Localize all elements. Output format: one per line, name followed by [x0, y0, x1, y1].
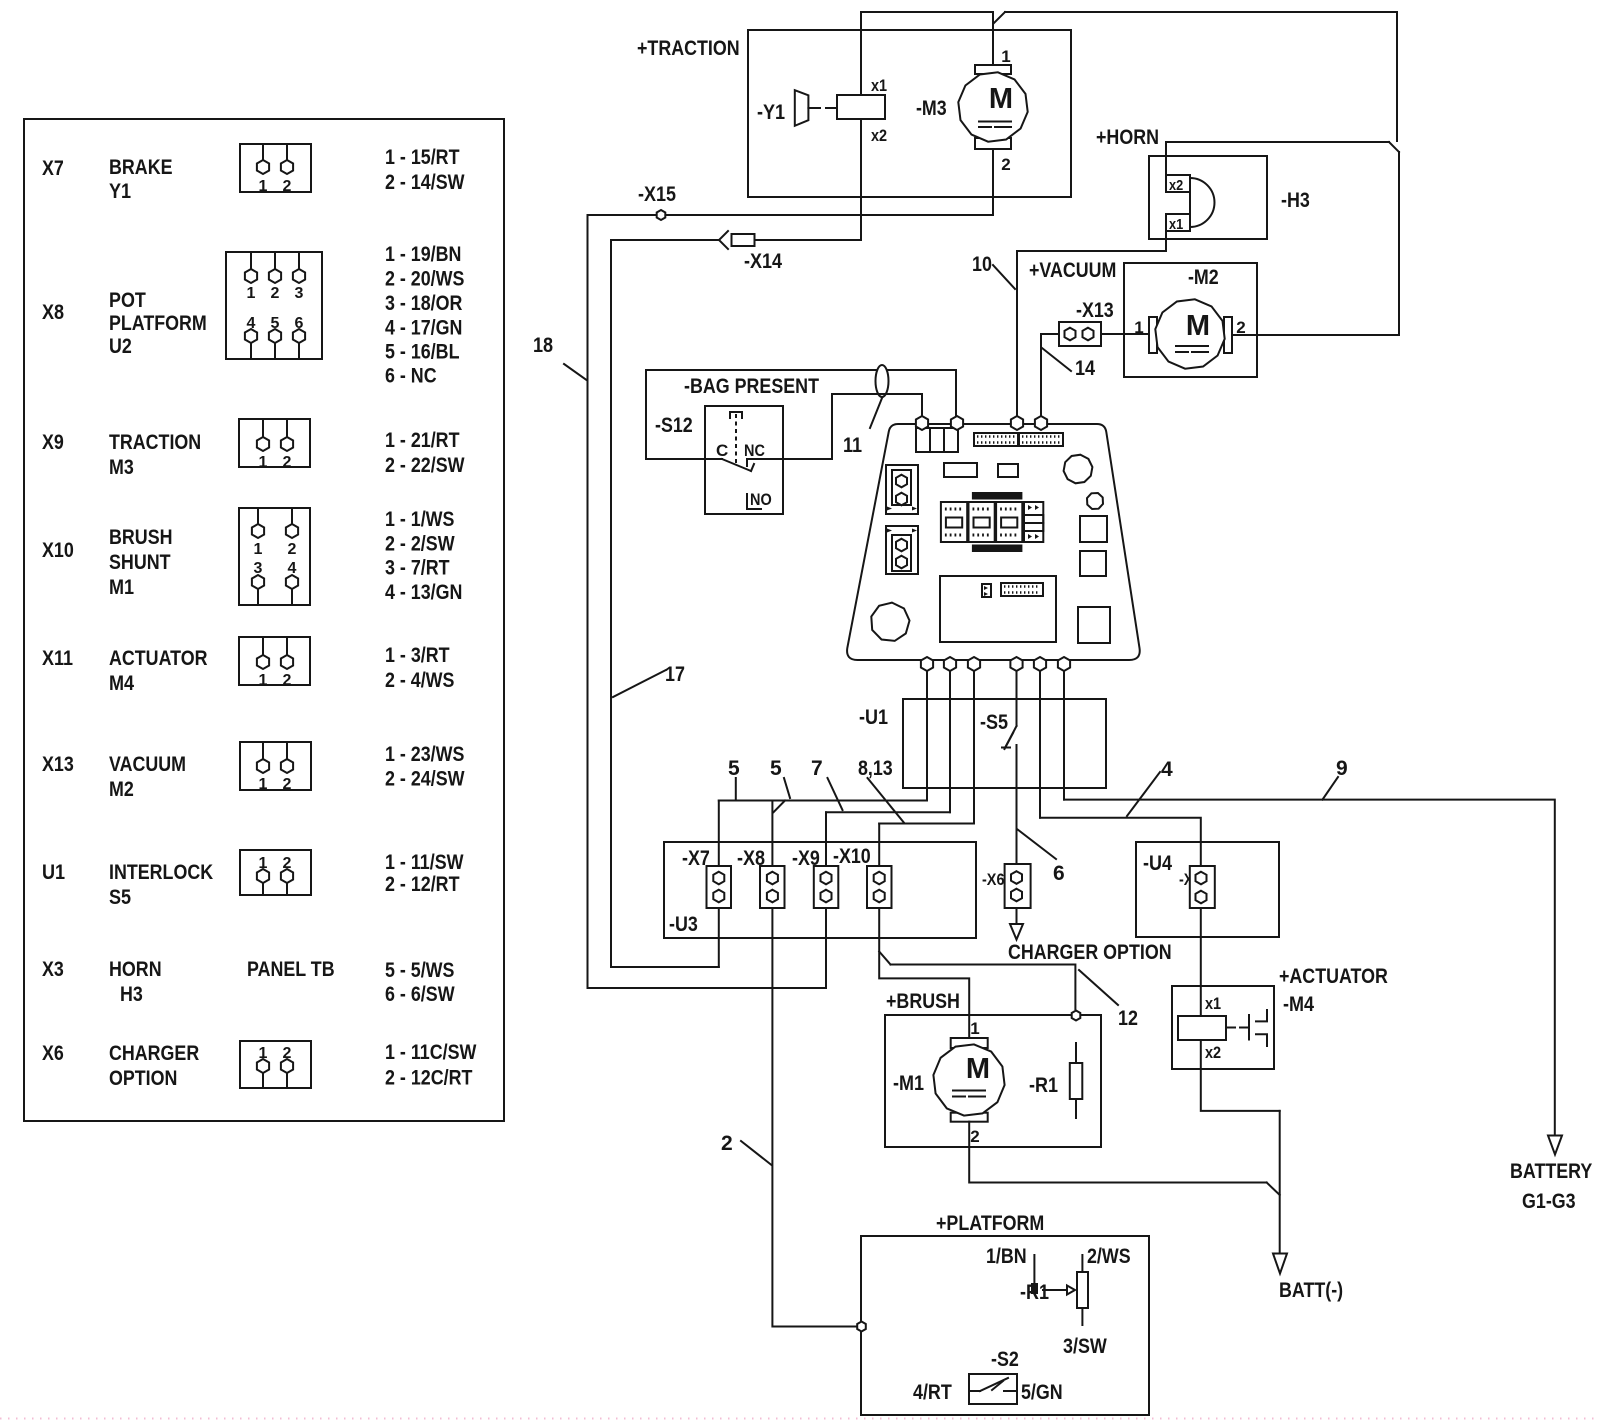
battery arrow: [1548, 1136, 1562, 1155]
svg-text:POT: POT: [109, 289, 146, 312]
label NO with bracket: [747, 490, 772, 509]
svg-text:5 - 16/BL: 5 - 16/BL: [385, 341, 460, 364]
svg-text:BRAKE: BRAKE: [109, 156, 173, 179]
svg-text:17: 17: [665, 663, 685, 686]
svg-text:2: 2: [283, 454, 292, 471]
wire M3 pin2 down to X15: [992, 149, 994, 215]
switch S2: [969, 1374, 1017, 1404]
label 8,13 with leader: [858, 757, 904, 823]
board square B: [1080, 551, 1106, 576]
svg-text:X11: X11: [42, 647, 73, 670]
svg-text:5: 5: [770, 757, 782, 780]
wire X10 vertical to brush: [879, 824, 969, 1039]
svg-text:+TRACTION: +TRACTION: [637, 37, 740, 60]
svg-text:3 - 7/RT: 3 - 7/RT: [385, 557, 450, 580]
board header strip B: [1019, 433, 1063, 446]
svg-text:2 - 12C/RT: 2 - 12C/RT: [385, 1067, 473, 1090]
wire below R1: [1075, 1099, 1077, 1118]
board connector block upper-left: [886, 465, 918, 514]
svg-text:1: 1: [254, 541, 263, 558]
batt-minus arrow: [1273, 1254, 1287, 1274]
svg-text:2 - 20/WS: 2 - 20/WS: [385, 268, 464, 291]
control board outline: [847, 424, 1140, 660]
connector X9: [814, 866, 839, 908]
svg-text:S5: S5: [109, 886, 131, 909]
board bottom pin 3: [968, 657, 980, 671]
legend row X6 CHARGER OPTION labels: [42, 1042, 199, 1090]
wire X14 with inline connector: [611, 231, 861, 249]
svg-text:5/GN: 5/GN: [1021, 1381, 1063, 1404]
board relay module 2: [969, 502, 995, 542]
board bottom module: [940, 576, 1056, 642]
svg-text:1: 1: [259, 672, 268, 689]
svg-text:-R1: -R1: [1020, 1281, 1049, 1304]
svg-text:2 - 12/RT: 2 - 12/RT: [385, 873, 460, 896]
horn H3 symbol: [1166, 175, 1214, 231]
board small rect B: [998, 464, 1018, 477]
svg-text:X9: X9: [42, 431, 64, 454]
svg-text:1 - 23/WS: 1 - 23/WS: [385, 743, 464, 766]
legend row U1 INTERLOCK S5 labels: [42, 861, 213, 909]
svg-text:X13: X13: [42, 753, 74, 776]
legend X7 pin list: [385, 146, 465, 194]
svg-text:2 - 4/WS: 2 - 4/WS: [385, 669, 454, 692]
node on brush box top: [1072, 1011, 1081, 1021]
svg-text:3: 3: [295, 285, 304, 302]
coil Y1: [837, 95, 885, 119]
wire net 17 X7 to X14: [611, 240, 719, 967]
legend connector X11 (2-pin): [239, 637, 310, 689]
board bottom pin 6: [1058, 657, 1070, 671]
svg-text:-X6: -X6: [982, 870, 1005, 889]
frame vacuum M2 box: [1124, 263, 1257, 377]
legend U1 pin list: [385, 851, 464, 896]
legend connector X13 (2-pin): [240, 742, 311, 793]
svg-text:TRACTION: TRACTION: [109, 431, 201, 454]
svg-text:OPTION: OPTION: [109, 1067, 177, 1090]
svg-text:2: 2: [970, 1127, 979, 1146]
connector X7: [707, 866, 732, 908]
wire jog at M3 pin1: [994, 12, 1005, 23]
svg-text:-X13: -X13: [1076, 299, 1114, 322]
label 14 with leader: [1042, 348, 1095, 380]
wire bag-present top: [646, 369, 956, 371]
legend X8 pin list: [385, 243, 464, 388]
label 12 with leader: [1079, 970, 1138, 1030]
label 7 with leader: [811, 757, 843, 810]
svg-text:BATT(-): BATT(-): [1279, 1279, 1343, 1302]
svg-text:1 - 15/RT: 1 - 15/RT: [385, 146, 460, 169]
svg-text:6: 6: [1053, 862, 1065, 885]
svg-text:x2: x2: [1205, 1043, 1221, 1062]
legend table frame: [24, 119, 504, 1121]
svg-text:PLATFORM: PLATFORM: [109, 312, 207, 335]
svg-text:-S12: -S12: [655, 414, 693, 437]
svg-text:+HORN: +HORN: [1096, 126, 1159, 149]
svg-text:x2: x2: [871, 126, 887, 145]
svg-text:6 - 6/SW: 6 - 6/SW: [385, 983, 455, 1006]
bottom page dotted marker: [0, 1418, 1600, 1420]
svg-text:-BAG PRESENT: -BAG PRESENT: [684, 375, 819, 398]
legend row X3 HORN H3 labels: [42, 958, 335, 1006]
svg-text:HORN: HORN: [109, 958, 162, 981]
svg-text:2/WS: 2/WS: [1087, 1245, 1131, 1268]
svg-text:4: 4: [1161, 758, 1173, 781]
svg-text:BATTERY: BATTERY: [1510, 1160, 1592, 1183]
svg-text:-U4: -U4: [1143, 852, 1172, 875]
frame +BRUSH box: [885, 1015, 1101, 1147]
frame U4 box: [1136, 842, 1279, 937]
wire M2 pin2 to horn bus: [1232, 334, 1399, 336]
legend connector X10 (4-pin): [239, 508, 310, 605]
svg-text:G1-G3: G1-G3: [1522, 1190, 1576, 1213]
svg-text:-X14: -X14: [744, 250, 782, 273]
svg-text:2: 2: [1001, 155, 1010, 174]
wire S5 to X6 charger: [1016, 745, 1018, 924]
legend X6 pin list: [385, 1041, 477, 1090]
svg-text:BRUSH: BRUSH: [109, 526, 173, 549]
svg-text:+PLATFORM: +PLATFORM: [936, 1212, 1044, 1235]
svg-text:7: 7: [811, 757, 823, 780]
svg-text:2: 2: [283, 776, 292, 793]
wire X0 through U4 to M4: [1200, 903, 1202, 1016]
board square C: [1078, 607, 1110, 643]
svg-text:-R1: -R1: [1029, 1074, 1058, 1097]
board relay module 4: [1024, 502, 1043, 542]
svg-text:-U1: -U1: [859, 706, 888, 729]
board header strip A: [974, 433, 1018, 446]
legend X10 pin list: [385, 508, 462, 604]
svg-text:C: C: [716, 441, 728, 460]
svg-text:-M1: -M1: [893, 1072, 924, 1095]
wire NC to board pin: [783, 394, 922, 459]
wire X9 vertical (net 18 branch): [588, 215, 827, 988]
svg-text:2: 2: [283, 178, 292, 195]
board top pin 3: [1011, 416, 1023, 430]
wire node to R1: [1075, 1043, 1077, 1063]
svg-text:2: 2: [283, 672, 292, 689]
svg-text:U1: U1: [42, 861, 65, 884]
wire X13 to board pin: [1041, 334, 1059, 417]
board bottom pin 2: [944, 657, 956, 671]
svg-text:1 - 21/RT: 1 - 21/RT: [385, 429, 460, 452]
svg-text:18: 18: [533, 334, 553, 357]
connector X13: [1059, 322, 1101, 346]
connector X6: [1005, 864, 1031, 908]
wire X15: [588, 214, 994, 216]
legend connector X7 (2-pin): [240, 144, 311, 195]
connector X10: [867, 866, 892, 908]
svg-text:11: 11: [843, 434, 862, 457]
label 4 with leader: [1127, 758, 1173, 816]
svg-text:4 - 17/GN: 4 - 17/GN: [385, 317, 462, 340]
svg-text:-M4: -M4: [1283, 993, 1314, 1016]
board top pin 4: [1035, 416, 1047, 430]
cable marker ellipse: [876, 365, 889, 397]
svg-text:1 - 1/WS: 1 - 1/WS: [385, 508, 454, 531]
svg-text:+BRUSH: +BRUSH: [886, 990, 960, 1013]
board square A: [1080, 516, 1107, 542]
svg-text:M: M: [1186, 310, 1210, 342]
wire M1 pin2 to batt-minus: [969, 1122, 1279, 1195]
svg-text:M: M: [966, 1053, 990, 1085]
label 10 with leader: [972, 253, 1015, 289]
svg-text:M3: M3: [109, 456, 134, 479]
svg-text:x1: x1: [1169, 216, 1183, 233]
legend connector X9 (2-pin): [239, 419, 310, 471]
svg-text:1: 1: [247, 285, 256, 302]
svg-text:-M3: -M3: [916, 97, 947, 120]
svg-text:-U3: -U3: [669, 913, 698, 936]
svg-text:1 - 11/SW: 1 - 11/SW: [385, 851, 464, 874]
svg-text:X3: X3: [42, 958, 64, 981]
node on platform box edge: [857, 1322, 866, 1332]
svg-text:Y1: Y1: [109, 180, 131, 203]
wire M4 x2 to batt-minus: [1201, 1040, 1280, 1111]
svg-text:1 - 19/BN: 1 - 19/BN: [385, 243, 461, 266]
svg-text:H3: H3: [120, 983, 143, 1006]
svg-text:+VACUUM: +VACUUM: [1029, 259, 1116, 282]
svg-text:-M2: -M2: [1188, 266, 1219, 289]
svg-text:M2: M2: [109, 778, 134, 801]
wire net 12 from X10 to R1 node: [879, 952, 1075, 1010]
svg-text:1/BN: 1/BN: [986, 1245, 1027, 1268]
frame actuator M4 box: [1172, 986, 1274, 1069]
label 6 with leader: [1017, 829, 1065, 885]
actuator contact symbol: [1226, 1010, 1267, 1046]
frame horn H3 box: [1149, 156, 1267, 239]
board top-left terminal block: [916, 428, 958, 452]
board hatched bar bottom: [973, 546, 1022, 552]
board octagon nut: [1087, 493, 1103, 509]
svg-text:2 - 22/SW: 2 - 22/SW: [385, 454, 465, 477]
svg-text:14: 14: [1075, 357, 1095, 380]
legend X9 pin list: [385, 429, 465, 477]
frame interlock U1 box: [903, 699, 1106, 788]
wire M3 pin1 up: [992, 12, 994, 65]
wire Y1 x1 up: [860, 12, 862, 95]
frame +PLATFORM box: [861, 1236, 1149, 1415]
switch S5 blade: [1002, 726, 1017, 749]
frame U3 box: [664, 842, 976, 938]
board relay module 3: [996, 502, 1022, 542]
svg-text:-X10: -X10: [833, 845, 871, 868]
svg-text:8,13: 8,13: [858, 757, 893, 780]
svg-text:x1: x1: [1205, 994, 1221, 1013]
svg-text:12: 12: [1118, 1007, 1138, 1030]
board top pin 2: [951, 416, 963, 430]
wire net X8/X9 horizontal: [826, 811, 950, 813]
switch S12 plunger and contacts: [705, 412, 783, 471]
wire net5 X7 horizontal: [719, 800, 927, 802]
resistor R1: [1070, 1063, 1083, 1099]
wire bag top to board pin: [955, 370, 957, 417]
coil M4: [1178, 1016, 1226, 1040]
label 17 with leader: [613, 663, 685, 697]
svg-text:NC: NC: [744, 441, 765, 460]
board nonagon nut: [871, 603, 909, 641]
svg-text:x2: x2: [1169, 177, 1183, 194]
wire X8 vertical (net 2): [772, 801, 856, 1327]
wire board pin to X10 net: [973, 671, 975, 824]
svg-text:2 - 14/SW: 2 - 14/SW: [385, 171, 465, 194]
svg-text:5: 5: [728, 757, 740, 780]
connector X8: [760, 866, 785, 908]
legend connector U1 (2-pin): [240, 850, 311, 895]
wire top bus left segment: [861, 11, 993, 13]
legend connector X8 (6-pin): [226, 252, 322, 359]
switch S12 box: [705, 406, 783, 514]
wire board pin to X7 net: [926, 671, 928, 801]
wire board pin to S5: [1016, 671, 1018, 726]
svg-text:-H3: -H3: [1281, 189, 1310, 212]
board top pin 1: [916, 416, 928, 430]
wire top bus right segment: [1005, 12, 1397, 141]
legend row X7 BRAKE Y1 labels: [42, 156, 173, 203]
svg-text:2: 2: [288, 541, 297, 558]
wire board pin to X8 net: [949, 671, 951, 812]
wire X13 to M2 pin1: [1101, 333, 1149, 335]
legend row X10 BRUSH SHUNT M1 labels: [42, 526, 173, 599]
pot R1 symbol: [1032, 1255, 1088, 1325]
svg-text:M4: M4: [109, 672, 134, 695]
svg-text:1: 1: [1001, 47, 1010, 66]
svg-text:X8: X8: [42, 301, 64, 324]
svg-text:-S2: -S2: [991, 1348, 1019, 1371]
svg-text:4/RT: 4/RT: [913, 1381, 952, 1404]
legend connector X6 (2-pin): [240, 1041, 311, 1088]
svg-text:-Y1: -Y1: [757, 101, 785, 124]
board relay module 1: [941, 502, 967, 542]
svg-text:-X15: -X15: [638, 183, 676, 206]
node on X15 wire: [657, 210, 666, 220]
wire net jog X8: [774, 801, 786, 813]
label 2 with leader: [721, 1132, 772, 1165]
wire board pin to net 9: [1063, 671, 1065, 800]
svg-text:1: 1: [259, 776, 268, 793]
svg-text:X10: X10: [42, 539, 74, 562]
svg-text:6 - NC: 6 - NC: [385, 365, 437, 388]
board small rect A: [944, 463, 977, 477]
svg-text:1: 1: [970, 1019, 979, 1038]
legend row X9 TRACTION M3 labels: [42, 431, 201, 479]
svg-text:U2: U2: [109, 335, 132, 358]
svg-text:CHARGER: CHARGER: [109, 1042, 199, 1065]
svg-text:1 - 3/RT: 1 - 3/RT: [385, 644, 450, 667]
svg-text:X7: X7: [42, 157, 64, 180]
label 5 second with leader: [770, 757, 790, 798]
svg-text:X6: X6: [42, 1042, 64, 1065]
legend X13 pin list: [385, 743, 465, 791]
legend X3 pin list: [385, 959, 455, 1006]
wire horn feed: [1166, 142, 1399, 335]
svg-text:1: 1: [259, 178, 268, 195]
svg-text:VACUUM: VACUUM: [109, 753, 186, 776]
svg-text:SHUNT: SHUNT: [109, 551, 171, 574]
board bottom pin 5: [1034, 657, 1046, 671]
legend row X11 ACTUATOR M4 labels: [42, 647, 208, 695]
wire net 4 to U4: [1040, 818, 1201, 872]
wire net 9 to battery: [1064, 800, 1555, 1135]
svg-text:M: M: [989, 83, 1013, 115]
board connector block lower-left: [886, 526, 918, 574]
svg-text:x1: x1: [871, 76, 887, 95]
svg-text:M1: M1: [109, 576, 134, 599]
svg-text:1: 1: [259, 454, 268, 471]
motor M2: [1149, 299, 1232, 368]
board bottom pin 1: [921, 657, 933, 671]
svg-text:NO: NO: [750, 490, 772, 509]
svg-text:-S5: -S5: [980, 711, 1008, 734]
motor M3: [958, 65, 1027, 149]
svg-text:PANEL TB: PANEL TB: [247, 958, 335, 981]
wire X7 vertical: [718, 801, 720, 968]
svg-text:2: 2: [721, 1132, 733, 1155]
svg-text:ACTUATOR: ACTUATOR: [109, 647, 208, 670]
svg-text:5 - 5/WS: 5 - 5/WS: [385, 959, 454, 982]
wire bag-present left drop to C: [646, 370, 705, 459]
brake Y1 cone symbol: [795, 90, 837, 126]
svg-text:+ACTUATOR: +ACTUATOR: [1279, 965, 1388, 988]
svg-text:10: 10: [972, 253, 992, 276]
board bottom pin 4: [1010, 657, 1022, 671]
label 5 first with leader: [728, 757, 740, 800]
wire net X10 horizontal: [879, 823, 974, 825]
connector X0: [1190, 866, 1215, 908]
legend X11 pin list: [385, 644, 454, 692]
motor M1: [933, 1038, 1004, 1122]
board hatched bar top: [973, 493, 1022, 499]
charger option arrow: [1010, 924, 1023, 940]
svg-text:2 - 24/SW: 2 - 24/SW: [385, 768, 465, 791]
legend row X13 VACUUM M2 labels: [42, 753, 186, 801]
svg-text:3 - 18/OR: 3 - 18/OR: [385, 292, 462, 315]
svg-text:INTERLOCK: INTERLOCK: [109, 861, 213, 884]
wire batt-minus vertical: [1279, 1111, 1281, 1254]
legend row X8 POT PLATFORM U2 labels: [42, 289, 207, 358]
label 9 with leader: [1323, 757, 1348, 800]
label 11 with leader: [843, 398, 882, 457]
svg-text:2 - 2/SW: 2 - 2/SW: [385, 533, 455, 556]
svg-text:3/SW: 3/SW: [1063, 1335, 1107, 1358]
board decagon nut: [1064, 455, 1093, 484]
svg-text:1 - 11C/SW: 1 - 11C/SW: [385, 1041, 477, 1064]
svg-text:4 - 13/GN: 4 - 13/GN: [385, 581, 462, 604]
label 18 with leader: [533, 334, 587, 380]
svg-text:2: 2: [271, 285, 280, 302]
svg-text:CHARGER OPTION: CHARGER OPTION: [1008, 941, 1172, 964]
wire horn x1 to board: [1017, 231, 1166, 417]
frame +TRACTION box: [748, 30, 1071, 197]
wire board pin to net 4: [1039, 671, 1041, 818]
wire Y1 x2 down to X14: [860, 119, 862, 240]
